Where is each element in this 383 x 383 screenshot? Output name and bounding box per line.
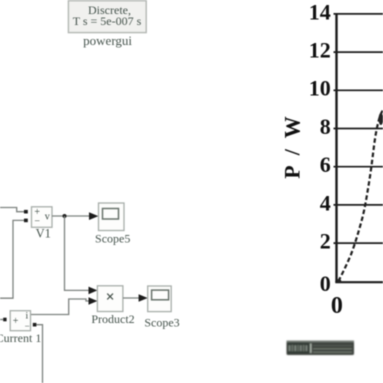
svg-text:Current 1: Current 1 [0,331,41,345]
wire to Current1 + terminal [0,319,3,321]
gridline 2 [334,242,383,244]
curve start blob [337,279,341,282]
powergui block [68,1,146,33]
gridline 8 [334,128,383,130]
svg-text:i: i [25,311,28,321]
wire Product2 to Scope3 [123,297,140,299]
curve end blob [379,113,383,125]
V1 + input port [24,210,28,214]
svg-text:14: 14 [309,0,331,24]
multiplier Product2 [97,286,123,312]
svg-text:V1: V1 [36,227,51,241]
svg-text:powergui: powergui [83,33,132,48]
svg-text:12: 12 [309,38,331,63]
svg-text:P / W: P / W [279,113,304,178]
gridline 4 [334,204,383,206]
scope Scope5 [99,203,125,231]
svg-text:4: 4 [320,190,331,215]
svg-text:−: − [25,321,30,331]
arrow into Scope3 [139,294,148,302]
svg-text:6: 6 [320,152,331,177]
wire from Current1 - terminal to bottom edge [36,325,42,383]
gridline 12 [334,51,383,53]
arrow into Scope5 [89,212,98,220]
scope Scope3 [148,286,172,312]
svg-text:v: v [45,212,50,223]
wire Current1 output to Product2 [31,299,90,315]
svg-text:Product2: Product2 [91,312,134,326]
current measurement Current 1 [10,311,30,331]
V1 - input port [24,219,28,223]
gridline 6 [334,166,383,168]
Current1 + port [3,318,6,322]
junction node [63,214,67,218]
arrow into Product2 input 2 [89,297,98,305]
wire to V1 + input [0,208,24,212]
wire V1 output to Scope5 [52,215,90,217]
svg-text:0: 0 [320,271,331,296]
Current1 - port [33,323,37,327]
power curve [338,110,383,281]
gridline 14 [334,13,383,15]
scrollbar thumb [287,341,355,356]
svg-text:0: 0 [331,293,343,319]
wire from V1 - input to left edge [0,220,24,298]
y-axis [335,13,337,282]
svg-text:Scope3: Scope3 [144,316,179,330]
arrow into Product2 input 1 [89,287,98,295]
svg-text:+: + [13,316,19,327]
wire V1 branch to Product2 [65,216,90,290]
svg-text:2: 2 [320,229,331,254]
svg-text:Scope5: Scope5 [95,232,130,246]
svg-text:T s = 5e-007 s: T s = 5e-007 s [73,14,142,28]
voltage measurement V1 [32,207,53,228]
x-axis [335,281,383,283]
svg-text:−: − [34,216,40,227]
gridline 10 [334,89,383,91]
svg-text:8: 8 [320,114,331,139]
svg-text:10: 10 [309,76,331,101]
